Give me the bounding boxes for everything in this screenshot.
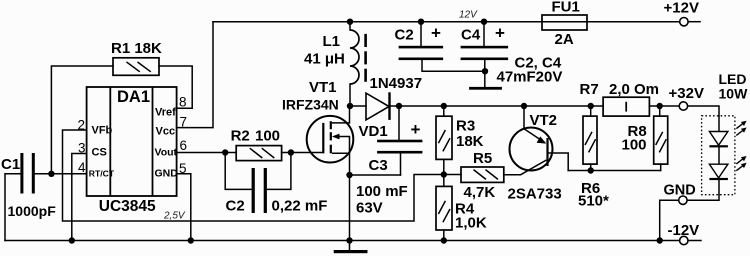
wire C4 top lead bbox=[483, 22, 485, 46]
wire C3 bottom to source node bbox=[350, 174, 401, 176]
node R2 right / gate bbox=[288, 149, 294, 155]
wire C3 bottom lead bbox=[400, 153, 402, 175]
capacitor C1 bbox=[20, 153, 34, 194]
svg-text:41 μH: 41 μH bbox=[304, 51, 345, 68]
VT2 collector bbox=[521, 160, 547, 175]
wire pin 2 VFb feedback bbox=[63, 130, 462, 221]
svg-text:12V: 12V bbox=[459, 10, 478, 21]
svg-text:R2: R2 bbox=[231, 128, 250, 145]
svg-text:Vout: Vout bbox=[155, 147, 178, 159]
LED emission arrows bbox=[736, 121, 746, 171]
LED string wire bbox=[718, 116, 720, 195]
VT1 drain lead bbox=[332, 122, 350, 124]
ground symbol below C4 bbox=[469, 87, 502, 90]
capacitor C3 electrolytic bbox=[377, 140, 422, 154]
diode VD1 bbox=[366, 92, 391, 120]
wire R3 top lead bbox=[443, 106, 445, 116]
wire C1 left lead to ground rail bbox=[5, 174, 21, 241]
capacitor C4 electrolytic bbox=[461, 46, 509, 60]
wire R6 top lead bbox=[590, 106, 592, 116]
node R6 top bbox=[588, 103, 594, 109]
node R2 left / C2 bypass bbox=[222, 149, 228, 155]
node RT/CT bbox=[48, 171, 54, 177]
svg-text:L1: L1 bbox=[323, 33, 341, 50]
wire RT/CT pin 4 bbox=[35, 173, 87, 175]
wire R4 top lead bbox=[443, 175, 445, 187]
svg-text:8: 8 bbox=[179, 95, 187, 110]
LED module dashed box bbox=[702, 116, 735, 195]
svg-text:DA1: DA1 bbox=[117, 88, 150, 106]
wire C2 bypass right arm bbox=[267, 153, 291, 190]
svg-text:C1: C1 bbox=[1, 156, 20, 173]
svg-text:100: 100 bbox=[622, 137, 647, 154]
wire GND terminal to LED cathode bbox=[687, 195, 719, 201]
resistor R7 bbox=[603, 97, 649, 116]
resistor R6 bbox=[583, 116, 597, 164]
ground symbol main bbox=[334, 241, 368, 254]
svg-text:0,22 mF: 0,22 mF bbox=[272, 198, 328, 215]
node VT2 base R6 bbox=[588, 167, 594, 173]
wire +12V stub bbox=[688, 21, 700, 23]
svg-text:2: 2 bbox=[78, 118, 86, 133]
svg-text:FU1: FU1 bbox=[552, 0, 580, 16]
svg-text:2,0 Om: 2,0 Om bbox=[609, 81, 659, 98]
svg-text:1N4937: 1N4937 bbox=[370, 75, 423, 92]
VT2 base bar bbox=[546, 138, 548, 166]
svg-text:2SA733: 2SA733 bbox=[508, 186, 562, 203]
wire pin 6 Vout to R2 bbox=[177, 152, 237, 154]
svg-text:GND: GND bbox=[155, 168, 179, 180]
svg-text:5: 5 bbox=[179, 161, 187, 176]
svg-text:RT/CT: RT/CT bbox=[89, 169, 115, 179]
svg-text:C2: C2 bbox=[395, 27, 414, 44]
terminal +12V bbox=[680, 18, 688, 26]
transistor VT2 PNP bbox=[510, 128, 553, 175]
node CS ground bbox=[69, 237, 75, 243]
terminal -12V bbox=[680, 236, 688, 244]
node C2 top bbox=[418, 19, 424, 25]
svg-text:100 mF: 100 mF bbox=[356, 183, 408, 200]
wire +32V mid rail bbox=[399, 105, 679, 107]
wire VD1 anode bbox=[350, 105, 366, 107]
wire C2 bottom lead to C4 node bbox=[422, 60, 485, 71]
svg-text:2,5V: 2,5V bbox=[163, 211, 186, 222]
wire +32V to LED anode bbox=[688, 106, 719, 116]
svg-text:4: 4 bbox=[78, 160, 86, 175]
VT1 body lead with arrow bbox=[334, 137, 350, 154]
svg-text:VT1: VT1 bbox=[309, 79, 337, 96]
svg-text:7: 7 bbox=[180, 115, 188, 130]
svg-text:4,7K: 4,7K bbox=[464, 184, 496, 201]
wire VT2 emitter lead bbox=[523, 106, 525, 129]
VT1 source lead bbox=[332, 152, 350, 154]
capacitor C2 electrolytic bbox=[399, 46, 444, 60]
wire base node line bbox=[568, 170, 661, 172]
svg-text:1000pF: 1000pF bbox=[8, 203, 57, 219]
IC DA1 UC3845 bbox=[87, 87, 177, 196]
svg-text:UC3845: UC3845 bbox=[99, 198, 156, 215]
wire R1 left to RT/CT node bbox=[51, 66, 113, 174]
svg-text:510*: 510* bbox=[578, 193, 609, 210]
terminal GND bbox=[679, 196, 687, 204]
node C3 top bbox=[396, 103, 402, 109]
svg-text:63V: 63V bbox=[356, 200, 383, 217]
svg-text:R1 18K: R1 18K bbox=[111, 40, 162, 57]
fuse FU1 bbox=[542, 15, 587, 30]
wire C3 top lead bbox=[398, 106, 400, 140]
wire C2 bypass left arm bbox=[225, 153, 251, 190]
wire C2 top lead bbox=[420, 22, 422, 46]
inductor L1 core dashes bbox=[364, 34, 367, 82]
wire VT1 source to node bbox=[349, 153, 351, 175]
node L1 top bbox=[347, 19, 353, 25]
LED D2 bbox=[709, 164, 728, 180]
svg-text:R5: R5 bbox=[473, 150, 492, 167]
inductor L1 bbox=[350, 30, 359, 84]
VT1 gate bar bbox=[322, 123, 324, 153]
svg-text:+: + bbox=[411, 120, 421, 139]
resistor R5 bbox=[461, 167, 504, 182]
svg-text:Vcc: Vcc bbox=[156, 126, 176, 138]
wire R8 top lead bbox=[659, 106, 661, 116]
svg-text:VD1: VD1 bbox=[359, 123, 388, 140]
transistor VT1 MOSFET bbox=[307, 116, 354, 163]
svg-text:47mF20V: 47mF20V bbox=[497, 69, 563, 86]
node VT1 drain / VD1 anode bbox=[347, 103, 353, 109]
wire top +12V rail bbox=[213, 21, 680, 23]
resistor R8 bbox=[654, 116, 668, 164]
wire R2 right to VT1 gate bbox=[282, 152, 324, 154]
resistor R2 bbox=[236, 146, 281, 161]
svg-text:C4: C4 bbox=[461, 27, 481, 44]
node R8 top bbox=[657, 103, 663, 109]
wire bottom ground rail bbox=[5, 240, 680, 242]
node R3 top bbox=[441, 103, 447, 109]
node C4 top bbox=[481, 19, 487, 25]
svg-text:+: + bbox=[495, 24, 505, 43]
svg-text:C2: C2 bbox=[226, 198, 245, 215]
svg-text:10W: 10W bbox=[719, 86, 749, 102]
VT2 emitter with arrow bbox=[524, 129, 545, 143]
resistor R3 bbox=[436, 116, 452, 159]
svg-text:18K: 18K bbox=[456, 133, 484, 150]
svg-text:3: 3 bbox=[78, 141, 86, 156]
svg-text:R7: R7 bbox=[580, 81, 599, 98]
svg-text:+12V: +12V bbox=[664, 0, 699, 17]
VT1 channel dashes bbox=[330, 121, 332, 129]
node feedback divider bbox=[441, 171, 447, 177]
wire VT1 drain bbox=[349, 106, 351, 123]
svg-text:R3: R3 bbox=[456, 118, 475, 135]
capacitor C2 bypass bbox=[252, 168, 267, 213]
node IC ground bbox=[188, 237, 194, 243]
svg-text:IRFZ34N: IRFZ34N bbox=[282, 97, 339, 113]
svg-text:6: 6 bbox=[180, 138, 188, 153]
wire R6 bottom lead bbox=[590, 164, 592, 170]
wire GND terminal left bbox=[660, 200, 679, 240]
LED D1 bbox=[709, 132, 728, 148]
wire VD1 cathode to C3 node bbox=[390, 105, 400, 107]
svg-text:Vref: Vref bbox=[155, 107, 176, 119]
wire C4 bottom lead to ground bbox=[484, 60, 486, 87]
wire L1 top lead bbox=[349, 22, 351, 30]
node GND rail bbox=[657, 237, 663, 243]
wire pin 8 Vref to R1 right bbox=[159, 66, 192, 108]
node C2 C4 bottom bbox=[482, 68, 488, 74]
wire R8 bottom lead bbox=[660, 164, 662, 170]
node VT2 emitter bbox=[521, 103, 527, 109]
wire L1 bottom lead bbox=[349, 84, 351, 106]
svg-text:VFb: VFb bbox=[92, 125, 113, 137]
wire R5 right to VT2 collector bbox=[504, 174, 521, 176]
wire R3 bottom lead bbox=[443, 159, 445, 174]
wire pin 3 CS to ground bbox=[72, 154, 87, 241]
wire -12V stub bbox=[688, 240, 701, 242]
terminal +32V bbox=[679, 102, 687, 110]
svg-text:VT2: VT2 bbox=[530, 112, 558, 129]
resistor R1 bbox=[113, 58, 159, 76]
svg-text:1,0K: 1,0K bbox=[455, 215, 487, 232]
svg-text:GND: GND bbox=[664, 183, 696, 199]
svg-text:C3: C3 bbox=[369, 157, 388, 174]
node source ground bbox=[346, 237, 352, 243]
svg-text:-12V: -12V bbox=[668, 222, 700, 239]
svg-text:CS: CS bbox=[92, 147, 107, 159]
svg-text:100: 100 bbox=[255, 128, 280, 145]
wire R4 bottom lead bbox=[443, 230, 445, 241]
wire VT2 base lead bbox=[548, 153, 569, 171]
resistor R4 bbox=[436, 186, 452, 230]
svg-text:+32V: +32V bbox=[669, 85, 704, 102]
wire source node to ground rail bbox=[349, 175, 351, 241]
wire Vcc drop to pin 7 bbox=[177, 22, 213, 128]
node R4 ground bbox=[441, 237, 447, 243]
node VT1 source bbox=[346, 172, 352, 178]
svg-text:+: + bbox=[431, 24, 441, 43]
svg-text:2A: 2A bbox=[555, 31, 574, 48]
wire pin 5 GND to ground bbox=[177, 174, 191, 241]
